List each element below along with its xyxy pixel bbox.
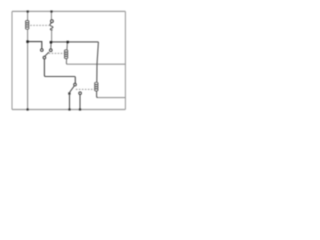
wire feed of relay coil III (x=97.3) — [97, 42, 99, 98]
wire upper lead of contact K (x=51.5) — [50, 11, 52, 19]
switch S1 common contact — [43, 56, 46, 59]
coil I — [25, 20, 29, 29]
wire from coil II to right rail — [68, 63, 126, 65]
wire from coil III to right rail — [98, 97, 126, 99]
junction dot node A — [26, 40, 29, 43]
wire rail from node B to coil II feed corner — [51, 41, 98, 43]
wire top rail — [12, 10, 125, 12]
wire from S1 common to S2 common — [44, 59, 75, 83]
dashed mechanical link coil I to contact K — [30, 24, 49, 26]
coil II — [64, 50, 68, 59]
junction dot top rail / contact K — [50, 10, 52, 12]
wire left rail — [11, 11, 13, 109]
wire bottom rail — [12, 109, 125, 111]
wire branch of relay coil I (x=27.6) — [27, 11, 29, 109]
coil III — [95, 82, 99, 91]
junction dot top rail / coil I — [27, 10, 29, 12]
junction dot bottom rail / S2 right lead — [79, 108, 81, 110]
junction dot bottom rail / S2 left lead — [68, 108, 70, 110]
switch S2 left fixed contact — [68, 92, 70, 94]
wire feed of relay coil II (x=66.9) — [66, 42, 67, 64]
contact K spring squiggle — [50, 23, 53, 30]
wire S2 left contact to bottom rail — [69, 95, 71, 110]
junction dot node B — [50, 41, 53, 44]
switch S2 arm — [70, 86, 75, 92]
wire node B down to S1 right fixed contact — [50, 42, 52, 49]
dashed mechanical link S1 arm to coil II — [49, 52, 65, 54]
switch S1 left fixed contact — [41, 49, 44, 52]
dashed mechanical link S2 arm to coil III — [76, 88, 95, 90]
wire from contact K to node B — [51, 30, 53, 41]
junction dot coil II feed — [67, 41, 69, 43]
switch S1 right fixed contact — [50, 49, 53, 52]
wire right rail — [124, 11, 126, 109]
switch S1 arm — [45, 52, 49, 56]
contact K fixed point circle — [51, 20, 54, 23]
switch S2 right fixed contact — [79, 92, 82, 95]
wire S2 right contact to bottom rail — [79, 95, 81, 110]
wire from node A to switch S1 left fixed contact — [28, 42, 42, 49]
switch S2 common contact — [74, 83, 77, 86]
junction dot bottom rail / coil I branch — [27, 108, 29, 110]
